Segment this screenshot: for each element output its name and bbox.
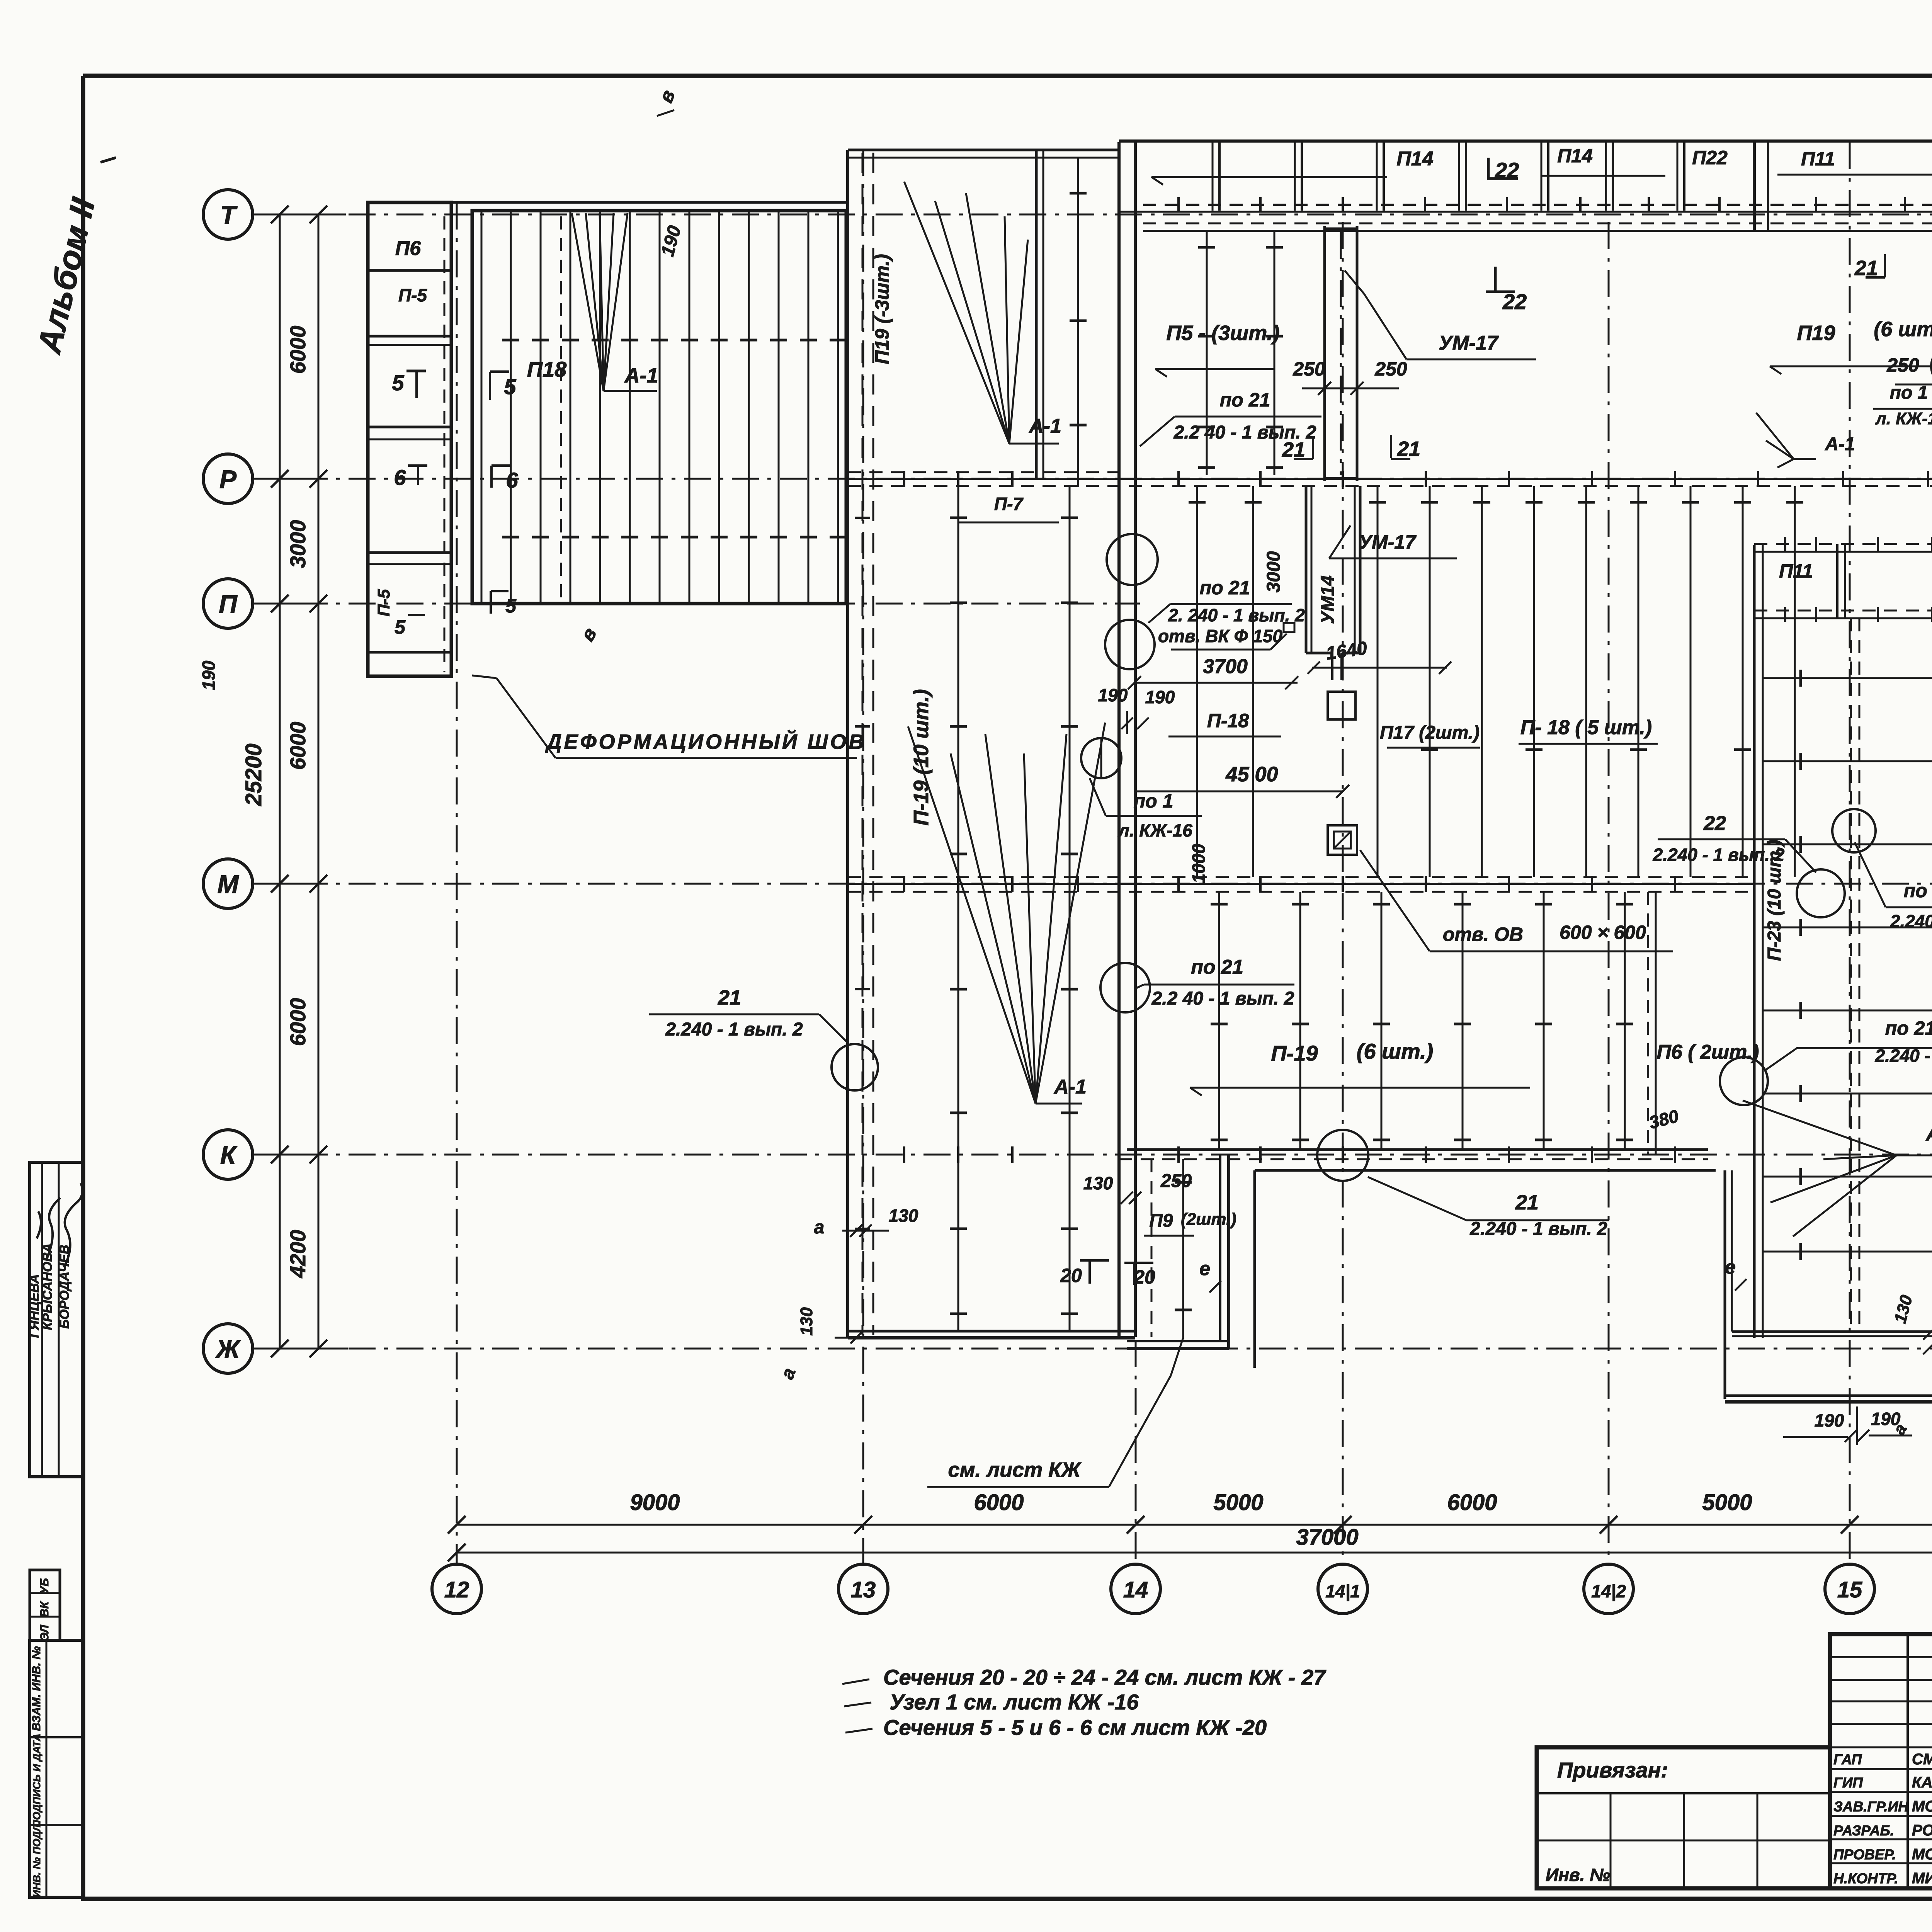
axis row К dash-dot line [253, 1154, 1932, 1156]
отв ОВ squares [1328, 692, 1355, 719]
svg-text:25200: 25200 [241, 743, 266, 806]
svg-text:3000: 3000 [1264, 551, 1284, 592]
ticks row К [903, 1146, 905, 1163]
node circle П-23 wall [1797, 869, 1845, 917]
node circle по 1 on П19(10шт) [1081, 738, 1121, 778]
flag lines in top strip [1151, 176, 1387, 178]
svg-text:6000: 6000 [1447, 1490, 1497, 1515]
svg-text:9000: 9000 [630, 1490, 680, 1515]
wall — row К band [1127, 1148, 1708, 1151]
svg-text:П22: П22 [1692, 147, 1728, 168]
svg-text:45 00: 45 00 [1225, 763, 1278, 786]
node circle П-23 upper [1832, 809, 1876, 852]
svg-text:П14: П14 [1396, 148, 1433, 170]
bottom dimension chain — segment line [457, 1524, 1932, 1526]
svg-text:отв. ВК Ф 150: отв. ВК Ф 150 [1158, 626, 1282, 646]
svg-text:ДЕФОРМАЦИОННЫЙ ШОВ: ДЕФОРМАЦИОННЫЙ ШОВ [545, 730, 866, 753]
axis column 14 dash-dot line [1135, 142, 1137, 1564]
svg-text:Инв. №: Инв. № [1546, 1865, 1610, 1885]
axis row П dash-dot line [253, 603, 1140, 605]
svg-text:5000: 5000 [1213, 1490, 1263, 1515]
П18 room top edge second line [451, 201, 846, 204]
ticks row М [903, 876, 905, 892]
wall — П9 block outline [1219, 1155, 1221, 1341]
svg-text:е: е [1725, 1256, 1736, 1278]
svg-text:П-19 (10 шт.): П-19 (10 шт.) [910, 689, 933, 825]
svg-text:П11: П11 [1801, 148, 1835, 170]
axis column 14/2 dash-dot line [1608, 222, 1610, 1564]
П18 panel lines (vertical) [510, 211, 512, 604]
svg-text:е: е [1199, 1258, 1210, 1279]
ticks on strip dashed line [1177, 197, 1180, 213]
svg-text:14|2: 14|2 [1591, 1581, 1626, 1601]
svg-text:5: 5 [392, 371, 404, 395]
svg-text:(6 шт.): (6 шт.) [1357, 1039, 1433, 1063]
svg-text:М: М [218, 870, 240, 898]
svg-text:П- 18 ( 5 шт.): П- 18 ( 5 шт.) [1520, 716, 1652, 739]
svg-text:по 21: по 21 [1191, 956, 1243, 978]
svg-text:А-1: А-1 [1825, 434, 1855, 454]
axis column 13 circle label [838, 1564, 888, 1614]
svg-text:Н.КОНТР.: Н.КОНТР. [1833, 1871, 1898, 1886]
central block top edges [848, 149, 1119, 151]
svg-text:20: 20 [1133, 1266, 1155, 1288]
svg-text:Т: Т [220, 201, 238, 229]
А-1 fan lower right [1743, 1100, 1896, 1155]
node circle on deform joint wall [832, 1044, 878, 1090]
П9 dashed [1151, 1159, 1153, 1337]
svg-text:К: К [220, 1141, 238, 1169]
node circle lower right [1720, 1057, 1768, 1105]
svg-text:250: 250 [1886, 354, 1919, 376]
svg-text:5000: 5000 [1702, 1490, 1752, 1515]
wall — divider П22/П11 (axis line x4540) [1753, 141, 1756, 232]
svg-text:2.240 - 1 вып. 2: 2.240 - 1 вып. 2 [1469, 1219, 1607, 1239]
svg-text:190: 190 [1145, 687, 1175, 707]
svg-text:ГЯНЦЕВА: ГЯНЦЕВА [27, 1274, 42, 1338]
wall — divider x2690 upper [1035, 150, 1038, 479]
П6 strip dashed edge [444, 216, 446, 672]
svg-text:ЭЛ: ЭЛ [38, 1624, 51, 1641]
deformation joint dashed pair [862, 153, 864, 1335]
svg-text:190: 190 [1815, 1410, 1844, 1430]
axis row К circle label [203, 1130, 253, 1179]
axis column 14 circle label [1111, 1564, 1160, 1614]
svg-text:190: 190 [1098, 685, 1128, 705]
axis row П circle label [203, 579, 253, 628]
А-1 fan in П19(-3шт) room [904, 182, 1009, 444]
svg-text:л. КЖ-16: л. КЖ-16 [1117, 820, 1192, 840]
left margin — lower table [30, 1640, 82, 1897]
П9 block panel lines [1182, 1159, 1184, 1339]
node circle on left wall row М-К [1100, 963, 1150, 1012]
title block — staff table verticals [1906, 1634, 1909, 1888]
svg-text:6: 6 [506, 468, 518, 492]
axis row М dash-dot line [253, 883, 1932, 885]
svg-text:в: в [655, 87, 679, 105]
svg-text:отв. ОВ: отв. ОВ [1443, 923, 1523, 945]
svg-text:2.240 - 1 вып. 2: 2.240 - 1 вып. 2 [665, 1019, 803, 1040]
svg-text:14|1: 14|1 [1325, 1581, 1360, 1601]
svg-text:Сечения 5 - 5 и 6 - 6 см ли: Сечения 5 - 5 и 6 - 6 см лист КЖ -20 [883, 1715, 1267, 1740]
wall — П11/П7 strip row Р [1754, 543, 1932, 545]
axis column 15 dash-dot line [1849, 142, 1851, 1564]
svg-text:ПРОВЕР.: ПРОВЕР. [1833, 1847, 1896, 1862]
svg-text:П-18: П-18 [1207, 710, 1249, 731]
УМ-17 column walls [1323, 226, 1326, 481]
svg-text:А-1: А-1 [1053, 1076, 1087, 1098]
svg-text:190: 190 [199, 660, 219, 690]
title block — thin rows upper [1830, 1656, 1932, 1658]
wall — right wing left edge x4540 [1753, 545, 1756, 1338]
left margin — small ref table [30, 1570, 60, 1640]
svg-text:по 21: по 21 [1885, 1017, 1932, 1039]
svg-text:МОРОЗОВА: МОРОЗОВА [1912, 1798, 1932, 1815]
ticks row Р [903, 471, 905, 487]
svg-text:14: 14 [1123, 1577, 1148, 1602]
axis row Ж dash-dot line [253, 1348, 1932, 1350]
svg-text:ЗАВ.ГР.ИН: ЗАВ.ГР.ИН [1833, 1799, 1909, 1815]
svg-text:6000: 6000 [286, 326, 310, 374]
svg-text:П-7: П-7 [994, 494, 1024, 514]
svg-text:БОРОДАЧЕВ: БОРОДАЧЕВ [57, 1245, 72, 1328]
svg-text:15: 15 [1837, 1577, 1862, 1602]
node circle row К [1317, 1130, 1368, 1181]
svg-text:3000: 3000 [286, 520, 310, 568]
А-1 fan upper right [1756, 413, 1794, 459]
wall — central block bottom edge [848, 1330, 1135, 1333]
svg-text:2.240 - 1 вып. 2: 2.240 - 1 вып. 2 [1875, 1046, 1932, 1066]
svg-text:130: 130 [1891, 1293, 1916, 1325]
svg-text:Альбом II: Альбом II [31, 194, 102, 357]
svg-text:ВК: ВК [38, 1600, 51, 1617]
А-1 fan in П18 room [572, 213, 604, 391]
П-19(6шт) panel lines [1218, 892, 1220, 1150]
П5 room panel lines [1206, 231, 1208, 475]
svg-text:ИНВ. № ПОДЛ.: ИНВ. № ПОДЛ. [31, 1821, 43, 1897]
title block — привязан box [1537, 1747, 1830, 1888]
svg-text:ПОДПИСЬ И ДАТА: ПОДПИСЬ И ДАТА [31, 1734, 43, 1828]
wall — row М dashed band [848, 876, 1754, 878]
svg-text:20: 20 [1060, 1265, 1082, 1286]
svg-text:(2шт.): (2шт.) [1181, 1210, 1236, 1229]
wall — П6 strip outline [368, 202, 451, 676]
svg-text:П: П [219, 590, 238, 618]
svg-text:П-23 (10 шт.): П-23 (10 шт.) [1764, 840, 1785, 961]
svg-text:250: 250 [1160, 1171, 1192, 1191]
П19(10шт) horizontal panel lines [1763, 677, 1932, 679]
svg-text:по 21: по 21 [1220, 389, 1270, 411]
П19(10шт) room panel lines [957, 486, 959, 1331]
svg-text:250: 250 [1374, 358, 1407, 380]
svg-text:1640: 1640 [1325, 638, 1368, 664]
svg-text:Привязан:: Привязан: [1557, 1758, 1668, 1782]
left margin — upper signature table [30, 1162, 82, 1477]
svg-text:МИХЕЕВ: МИХЕЕВ [1912, 1870, 1932, 1887]
svg-text:по 21: по 21 [1200, 577, 1250, 599]
svg-text:УМ-17: УМ-17 [1359, 531, 1417, 553]
wall — central block right wall (axis 14) [1117, 142, 1121, 1337]
svg-text:КАЛЕДИНА: КАЛЕДИНА [1912, 1774, 1932, 1791]
node circle on wall left of П5 room [1107, 534, 1158, 585]
axis row Т dash-dot line [253, 214, 1932, 216]
svg-text:П9: П9 [1149, 1211, 1173, 1231]
axis column 14/1 dash-dot line [1342, 222, 1344, 1564]
svg-text:6000: 6000 [974, 1490, 1024, 1515]
svg-text:УМ14: УМ14 [1318, 575, 1338, 624]
bottom dimension chain — total line 37000 [457, 1552, 1932, 1554]
bottom right block horizontal lines [1763, 1251, 1932, 1253]
axis row Р dash-dot line [253, 478, 1932, 480]
node circle on column x5052 [1931, 345, 1932, 387]
svg-text:6: 6 [394, 465, 406, 490]
svg-text:П19: П19 [1797, 321, 1835, 345]
ticks П11/П7 strip dashes [1784, 537, 1786, 551]
svg-text:190: 190 [657, 223, 685, 259]
axis column 15 circle label [1825, 1564, 1874, 1614]
axis column 12 circle label [432, 1564, 481, 1614]
wall — П18 room outline [472, 211, 846, 604]
upper room panel lines x2700-2900 [1077, 158, 1079, 475]
wall — top strip outline [1119, 139, 1932, 143]
svg-text:6000: 6000 [286, 722, 310, 770]
svg-text:37000: 37000 [1296, 1525, 1358, 1550]
svg-text:Сечения 20 - 20 ÷ 24 - 24 см: Сечения 20 - 20 ÷ 24 - 24 см. лист КЖ - … [883, 1665, 1327, 1689]
svg-text:МОРОЗОВА: МОРОЗОВА [1912, 1846, 1932, 1863]
svg-text:П-5: П-5 [398, 285, 427, 305]
svg-text:(6 шт.): (6 шт.) [1874, 318, 1932, 341]
svg-text:Ж: Ж [215, 1335, 241, 1363]
svg-text:П6: П6 [395, 237, 421, 260]
svg-text:22: 22 [1703, 812, 1726, 835]
svg-text:ГИП: ГИП [1833, 1775, 1863, 1791]
title block — outer frame [1830, 1634, 1932, 1888]
svg-text:130: 130 [797, 1307, 816, 1336]
wall — П6(2шт) column [1647, 892, 1649, 1155]
svg-text:по 22: по 22 [1904, 880, 1932, 901]
axis column 14/2 circle label [1584, 1564, 1633, 1614]
svg-text:5: 5 [395, 616, 406, 638]
svg-text:6000: 6000 [286, 998, 310, 1046]
axis row Т circle label [203, 190, 253, 239]
svg-text:П17 (2шт.): П17 (2шт.) [1380, 723, 1480, 743]
svg-text:П18: П18 [527, 357, 567, 381]
svg-text:П-5: П-5 [374, 589, 393, 616]
svg-text:380: 380 [1647, 1105, 1681, 1133]
svg-text:3700: 3700 [1203, 655, 1248, 678]
svg-text:4200: 4200 [286, 1230, 310, 1279]
svg-text:УБ: УБ [38, 1578, 51, 1594]
wall — row Р dashed band left part [848, 471, 1119, 473]
svg-text:П11: П11 [1779, 560, 1813, 582]
wall — room П5 top dashed [1143, 223, 1932, 224]
П18 panel dashed line [560, 216, 562, 599]
left dimension chain lines [279, 214, 281, 1349]
svg-text:в: в [576, 624, 601, 645]
svg-text:130: 130 [1083, 1173, 1113, 1193]
axis row Ж circle label [203, 1324, 253, 1373]
svg-text:130: 130 [889, 1206, 918, 1226]
svg-text:А-1: А-1 [1925, 1123, 1932, 1145]
svg-text:А-1: А-1 [1028, 415, 1061, 437]
axis row М circle label [203, 859, 253, 908]
П6 strip cell dividers [368, 269, 451, 272]
node circle on wall at П row [1105, 620, 1155, 669]
svg-text:л. КЖ-16: л. КЖ-16 [1875, 409, 1932, 428]
УМ14 column walls [1305, 486, 1308, 653]
П-18 room panel lines vertical [1196, 486, 1198, 877]
svg-text:П19 (-3шт.): П19 (-3шт.) [871, 254, 893, 364]
svg-text:12: 12 [444, 1577, 469, 1602]
title block — staff rows [1830, 1747, 1932, 1748]
axis column 14/1 circle label [1318, 1564, 1367, 1614]
svg-text:а: а [814, 1217, 825, 1238]
axis row Р circle label [203, 454, 253, 503]
wall — courtyard bottom edge y3029 [1255, 1169, 1716, 1172]
svg-text:600 × 600: 600 × 600 [1560, 922, 1646, 943]
svg-text:А-1: А-1 [624, 364, 658, 387]
svg-text:а: а [777, 1365, 800, 1382]
wall — deformation joint left edge [846, 150, 849, 1337]
svg-text:П-19: П-19 [1271, 1041, 1318, 1065]
wall — П-23 dashed wall x4790 [1850, 618, 1852, 1332]
svg-text:2.2 40 - 1 вып. 2: 2.2 40 - 1 вып. 2 [1151, 988, 1294, 1009]
svg-text:13: 13 [851, 1577, 876, 1602]
svg-text:УМ-17: УМ-17 [1439, 332, 1499, 354]
svg-text:ГАП: ГАП [1833, 1752, 1862, 1767]
svg-text:РОНДАРЕВА: РОНДАРЕВА [1912, 1822, 1932, 1839]
svg-text:П14: П14 [1557, 145, 1593, 167]
svg-text:по 1: по 1 [1890, 383, 1928, 403]
axis column 12 dash-dot line [456, 202, 458, 1564]
axis column 13 dash-dot line [862, 149, 864, 1564]
svg-text:по 1: по 1 [1134, 790, 1173, 812]
svg-text:250: 250 [1293, 358, 1325, 380]
ticks on left wall of П19(10шт) [855, 517, 870, 519]
svg-text:П5 - (3шт.): П5 - (3шт.) [1166, 321, 1279, 345]
svg-text:Узел 1 см. лист КЖ -16: Узел 1 см. лист КЖ -16 [889, 1690, 1139, 1714]
svg-text:2.240 - 1в. 2: 2.240 - 1в. 2 [1890, 911, 1932, 931]
wall — bottom right block [1724, 1170, 1726, 1399]
А-1 fan lower in П19(10шт) [908, 726, 1036, 1104]
left margin — signature scribbles [46, 1198, 60, 1260]
svg-text:ВЗАМ. ИНВ. №: ВЗАМ. ИНВ. № [30, 1646, 43, 1731]
svg-text:21: 21 [1397, 437, 1420, 461]
svg-text:РАЗРАБ.: РАЗРАБ. [1833, 1823, 1894, 1838]
svg-text:Р: Р [219, 465, 237, 493]
svg-text:см. лист КЖ: см. лист КЖ [948, 1458, 1082, 1481]
svg-text:СМИРНОВ: СМИРНОВ [1912, 1751, 1932, 1768]
П11/П7 strip divider [1836, 544, 1838, 618]
top strip cell dividers [1218, 141, 1221, 211]
svg-text:21: 21 [1515, 1191, 1539, 1214]
svg-text:П6 ( 2шт.): П6 ( 2шт.) [1656, 1041, 1759, 1063]
ticks on П-18 room lines [1189, 501, 1206, 504]
svg-text:21: 21 [718, 986, 741, 1009]
